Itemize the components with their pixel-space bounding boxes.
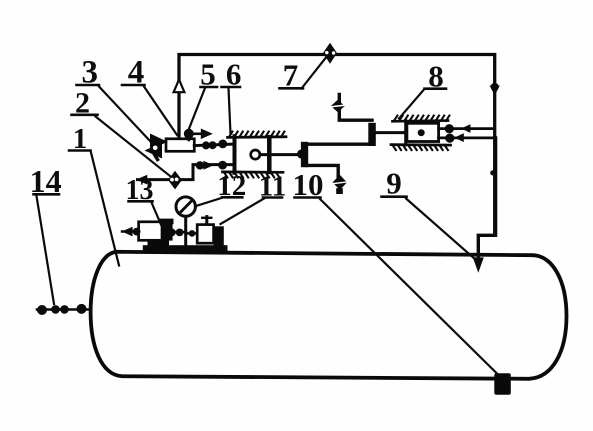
wire: rod into right cylinder 8 <box>376 131 418 134</box>
svg-text:8: 8 <box>428 59 444 94</box>
wire: top supply pipe (left riser, top run, right drop) <box>179 55 495 236</box>
underline label 13 <box>129 200 153 203</box>
svg-text:3: 3 <box>81 55 98 91</box>
svg-text:1: 1 <box>73 123 88 155</box>
svg-text:14: 14 <box>30 163 62 199</box>
cylinder 12/11: bottom hatched wall <box>223 172 284 178</box>
svg-text:2: 2 <box>75 87 90 120</box>
leader line 14 <box>37 196 55 304</box>
wire: upper fork line to second bar <box>306 142 372 145</box>
vent valve (lower) <box>333 175 347 194</box>
wire: lower fork line to lower vent <box>306 165 338 177</box>
underline label 9 <box>382 195 407 198</box>
underline label 11 <box>263 196 282 199</box>
leader line 13 <box>152 203 162 225</box>
leader line 9 <box>406 199 476 261</box>
safety valve block 11 <box>197 217 224 247</box>
valve 7 (shut-off valve on top pipe) <box>323 43 337 64</box>
drain valve (black square at tank bottom, pointed by 10) <box>494 373 511 395</box>
tank 1 (air reservoir body) <box>91 252 567 379</box>
underline label 8 <box>425 87 447 90</box>
leader line 8 <box>399 90 424 119</box>
tank left port fitting (pointed by 14) <box>37 304 91 315</box>
leader line 10 <box>320 199 501 378</box>
cylinder 8: left end wall <box>404 121 407 145</box>
pressure gauge 12 <box>176 197 195 247</box>
leader line 6 <box>229 88 231 134</box>
vent valve (upper, on fulcrum line) <box>331 100 345 112</box>
wire: lower branch with step to exhaust line <box>138 165 235 180</box>
underline label 4 <box>122 84 145 87</box>
arrow: flow arrow down on right drop pipe <box>491 83 499 91</box>
cylinder 12/11: left end wall <box>233 136 237 173</box>
fitting: dot and right arrow on lower port line <box>196 161 227 170</box>
cylinder 12/11 (left brake chamber): top hatched wall <box>228 132 287 138</box>
linkage yoke bar at rod end <box>297 142 308 167</box>
svg-text:6: 6 <box>226 57 242 92</box>
underline label 1 <box>69 149 91 152</box>
svg-text:10: 10 <box>293 167 324 202</box>
svg-text:13: 13 <box>126 175 154 206</box>
svg-text:9: 9 <box>386 166 402 201</box>
cylinder 8 (right chamber): top hatched wall <box>393 116 450 122</box>
wire: cylinder 8 upper port to right drop pipe <box>439 124 495 133</box>
fitting: left arrow and dot at block 13 inlet <box>122 227 141 237</box>
underline label 7 <box>280 87 304 90</box>
svg-text:11: 11 <box>259 170 286 202</box>
wire: line from second bar to upper vent <box>339 95 372 121</box>
wire: right pipe jog down into tank <box>478 138 495 258</box>
cylinder 8: bottom hatched wall <box>391 145 451 151</box>
check valve / intake symbol left of valve block (pointed by 3) <box>145 134 168 160</box>
svg-text:12: 12 <box>217 170 246 202</box>
wire: gauge stem to block 11 <box>186 230 198 237</box>
underline label 10 <box>295 196 321 199</box>
cylinder 12/11: piston rod pivot circle <box>251 150 260 159</box>
wire: valve block to cylinder upper port <box>194 140 234 150</box>
underline label 3 <box>77 84 100 87</box>
leader line 11 <box>221 199 265 225</box>
valve 2 (diamond valve on lower branch) <box>168 171 182 190</box>
leader line 4 <box>144 87 177 136</box>
svg-text:7: 7 <box>283 58 299 93</box>
cylinder 12/11: piston <box>267 137 272 172</box>
svg-text:5: 5 <box>200 57 216 92</box>
underline label 2 <box>72 114 98 117</box>
arrow: pipe arrow entering tank top <box>473 257 484 272</box>
manifold base band on tank top <box>143 245 228 252</box>
wire: cylinder 8 lower port line <box>439 133 496 142</box>
leader line 1 <box>91 153 119 266</box>
cylinder 8: piston block <box>407 123 439 141</box>
valve block 3 (brake valve body) <box>166 139 194 152</box>
underline label 12 <box>222 196 242 199</box>
leader line 2 <box>96 117 171 177</box>
underline label 14 <box>34 193 60 196</box>
svg-text:4: 4 <box>128 55 145 91</box>
cylinder 8: rod pin <box>418 129 425 136</box>
cylinder 12/11: piston rod <box>260 153 302 156</box>
leader line 5 <box>189 88 206 130</box>
regulator block 13 <box>139 219 174 247</box>
junction tick on drop pipe <box>490 170 495 175</box>
leader line 3 <box>99 87 150 142</box>
arrow 4 (hollow up arrow on riser) <box>174 80 185 93</box>
underline label 6 <box>222 86 241 89</box>
wire: block 13 to gauge stem with tee dots <box>168 229 186 237</box>
leader line 12 <box>196 198 222 206</box>
underline label 5 <box>201 86 218 89</box>
arrow: exhaust arrow pointing left (end of lower branch) <box>136 175 147 185</box>
leader line 7 <box>302 58 326 89</box>
component 5 (dot with right arrow above valve block) <box>184 129 213 141</box>
linkage second bar (lever) <box>368 123 376 146</box>
